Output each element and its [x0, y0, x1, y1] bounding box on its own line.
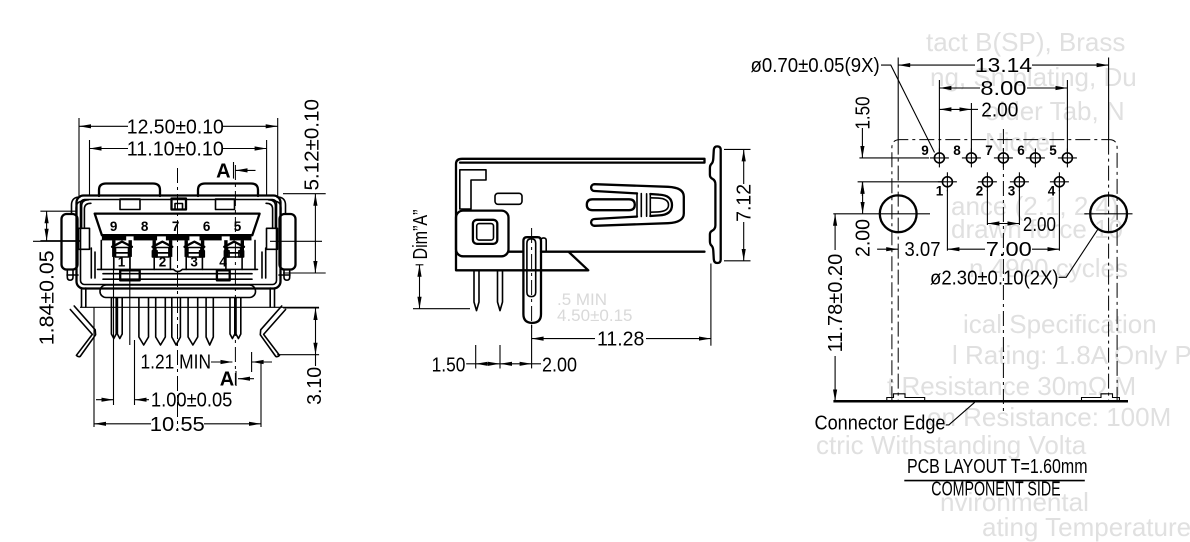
svg-text:9: 9 [921, 143, 929, 158]
svg-text:4: 4 [1048, 184, 1056, 199]
svg-text:8.00: 8.00 [980, 78, 1026, 100]
svg-text:2: 2 [976, 184, 984, 199]
svg-text:2.00: 2.00 [853, 219, 875, 257]
svg-text:tact B(SP), Brass: tact B(SP), Brass [926, 27, 1125, 57]
svg-text:Dim”A”: Dim”A” [410, 210, 432, 260]
svg-text:on Resistance: 100M: on Resistance: 100M [927, 402, 1171, 432]
svg-text:l Rating: 1.8A Only P: l Rating: 1.8A Only P [952, 340, 1190, 370]
svg-text:6: 6 [1017, 143, 1025, 158]
svg-text:1: 1 [118, 255, 126, 270]
svg-text:7.00: 7.00 [986, 239, 1032, 261]
svg-text:6: 6 [203, 219, 211, 234]
svg-text:7: 7 [172, 219, 180, 234]
svg-text:A: A [220, 369, 234, 391]
svg-text:2.00: 2.00 [981, 99, 1018, 121]
svg-text:COMPONENT SIDE: COMPONENT SIDE [931, 478, 1060, 500]
svg-text:Connector Edge: Connector Edge [815, 413, 946, 435]
svg-text:1.21 MIN: 1.21 MIN [141, 352, 212, 374]
svg-text:2.00: 2.00 [1023, 214, 1056, 236]
svg-text:8: 8 [953, 143, 961, 158]
svg-text:10.55: 10.55 [150, 414, 205, 436]
svg-text:1.84±0.05: 1.84±0.05 [37, 250, 59, 345]
svg-text:11.78±0.20: 11.78±0.20 [825, 254, 847, 353]
svg-text:4.50±0.15: 4.50±0.15 [557, 306, 633, 325]
svg-text:ø0.70±0.05(9X): ø0.70±0.05(9X) [751, 55, 880, 77]
svg-text:ical Specification: ical Specification [963, 309, 1157, 339]
svg-text:ø2.30±0.10(2X): ø2.30±0.10(2X) [930, 267, 1059, 289]
svg-text:12.50±0.10: 12.50±0.10 [127, 116, 224, 138]
svg-text:2.00: 2.00 [542, 355, 577, 377]
svg-text:3.07: 3.07 [905, 239, 941, 261]
svg-text:1: 1 [936, 184, 944, 199]
svg-text:1.50: 1.50 [432, 355, 466, 377]
svg-text:5: 5 [234, 219, 242, 234]
svg-text:1.50: 1.50 [852, 97, 874, 130]
svg-text:1.00±0.05: 1.00±0.05 [151, 390, 233, 412]
svg-text:5: 5 [1049, 143, 1057, 158]
svg-text:13.14: 13.14 [975, 55, 1032, 77]
svg-text:8: 8 [141, 219, 149, 234]
svg-text:t Resistance 30mΩ M: t Resistance 30mΩ M [887, 371, 1136, 401]
svg-text:3.10: 3.10 [304, 367, 326, 405]
svg-text:5.12±0.10: 5.12±0.10 [302, 99, 324, 191]
svg-text:9: 9 [110, 219, 118, 234]
svg-text:7: 7 [985, 143, 993, 158]
svg-text:3: 3 [190, 255, 198, 270]
svg-text:4: 4 [219, 255, 227, 270]
svg-text:7.12: 7.12 [734, 184, 756, 222]
svg-text:2: 2 [159, 255, 167, 270]
svg-text:A: A [216, 160, 230, 182]
svg-text:ating Temperature -55: ating Temperature -55 [982, 512, 1190, 542]
svg-text:PCB LAYOUT T=1.60mm: PCB LAYOUT T=1.60mm [907, 456, 1088, 478]
svg-text:11.10±0.10: 11.10±0.10 [127, 139, 224, 161]
svg-text:11.28: 11.28 [597, 329, 644, 351]
svg-text:3: 3 [1008, 184, 1016, 199]
